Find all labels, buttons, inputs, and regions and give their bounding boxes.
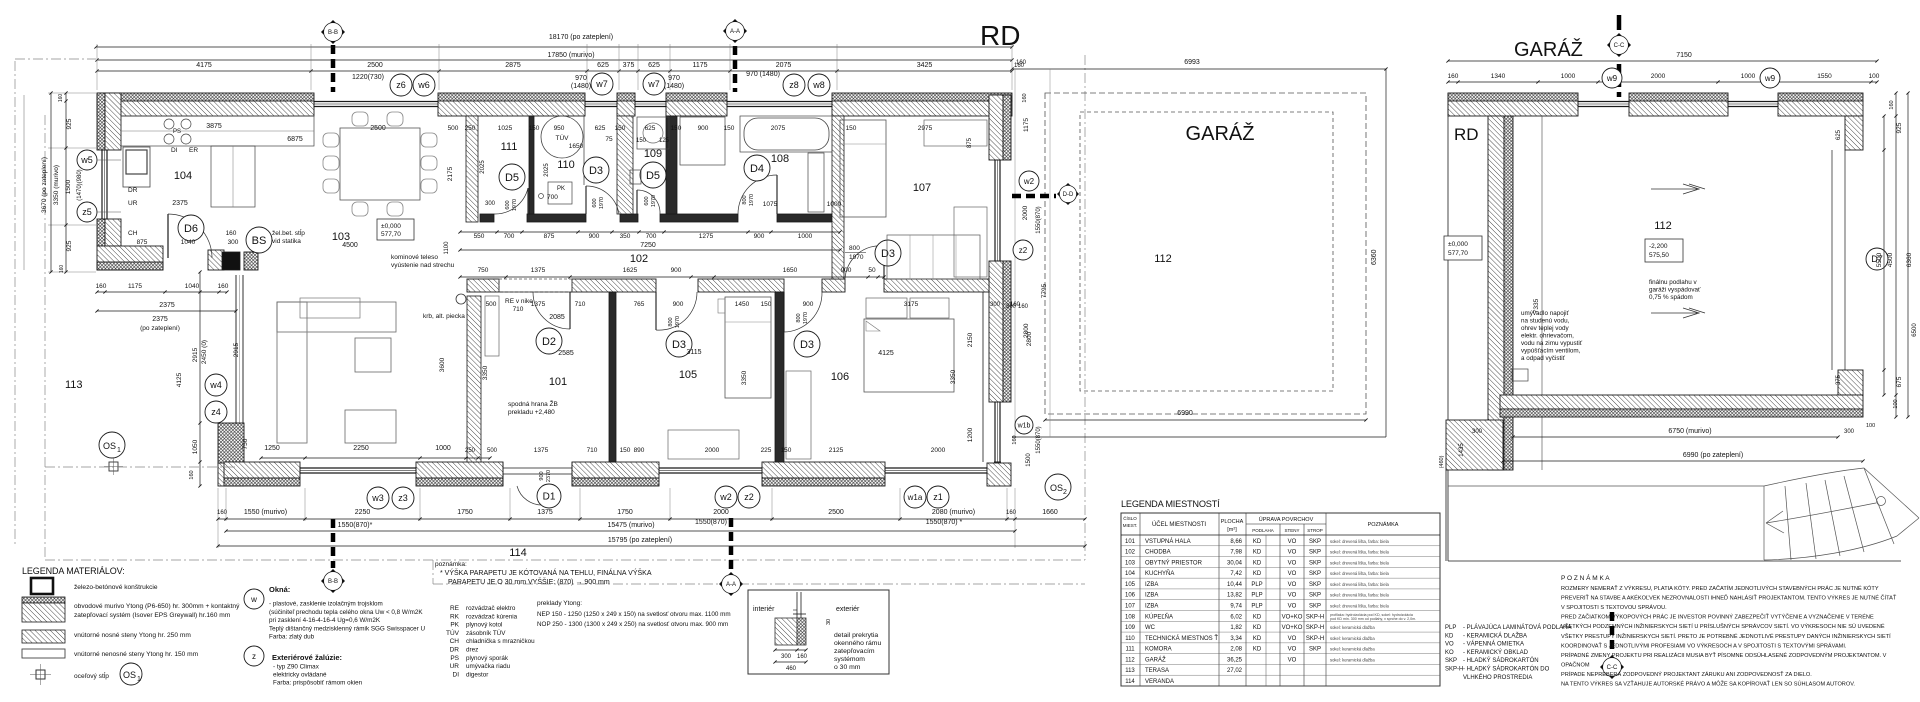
svg-text:700: 700 xyxy=(547,194,558,201)
svg-text:pod KD min. 300 mm od podlahy,: pod KD min. 300 mm od podlahy, v sprche … xyxy=(1330,617,1416,621)
svg-text:160: 160 xyxy=(1889,100,1895,109)
svg-text:1550(870): 1550(870) xyxy=(1036,426,1042,453)
svg-text:300: 300 xyxy=(1472,429,1483,435)
svg-text:3350: 3350 xyxy=(950,369,957,384)
svg-text:- KERAMICKÝ OBKLAD: - KERAMICKÝ OBKLAD xyxy=(1463,649,1529,656)
svg-text:P O Z N Á M K A: P O Z N Á M K A xyxy=(1561,573,1610,582)
svg-text:PK: PK xyxy=(557,186,565,192)
svg-text:VŠETKY PRESTUPY INŽINIERSKYCH: VŠETKY PRESTUPY INŽINIERSKYCH SIETÍ. PRE… xyxy=(1561,632,1891,640)
svg-text:KÚPEĽŇA: KÚPEĽŇA xyxy=(1145,613,1173,620)
svg-text:V SPOJITOSTI S TEXTOVOU SPRÁVO: V SPOJITOSTI S TEXTOVOU SPRÁVOU. xyxy=(1561,604,1667,611)
svg-text:112: 112 xyxy=(1654,220,1672,232)
svg-text:detail prekrytia: detail prekrytia xyxy=(834,632,878,639)
svg-text:SKP-H: SKP-H xyxy=(1306,614,1324,620)
svg-text:CH: CH xyxy=(450,638,460,645)
svg-text:250: 250 xyxy=(465,125,476,132)
svg-text:550: 550 xyxy=(474,233,485,240)
svg-text:6500: 6500 xyxy=(1912,323,1918,337)
svg-text:6750 (murivo): 6750 (murivo) xyxy=(1668,428,1711,435)
svg-text:225: 225 xyxy=(761,447,772,454)
svg-text:710: 710 xyxy=(587,447,598,454)
svg-text:1375: 1375 xyxy=(534,447,549,454)
svg-text:B-B: B-B xyxy=(328,579,338,585)
svg-text:250: 250 xyxy=(465,448,476,454)
svg-text:LEGENDA MIESTNOSTÍ: LEGENDA MIESTNOSTÍ xyxy=(1121,499,1220,509)
svg-text:1650: 1650 xyxy=(783,267,798,274)
svg-text:375: 375 xyxy=(623,62,635,69)
svg-text:plynový kotol: plynový kotol xyxy=(466,622,502,629)
svg-text:VO: VO xyxy=(1288,593,1297,599)
svg-text:800: 800 xyxy=(849,245,860,252)
svg-text:2500: 2500 xyxy=(828,509,844,516)
svg-text:a odpad vyčistiť: a odpad vyčistiť xyxy=(1521,355,1566,362)
svg-text:2370: 2370 xyxy=(546,470,552,482)
svg-text:1660: 1660 xyxy=(1042,509,1058,516)
svg-text:300: 300 xyxy=(228,239,239,246)
svg-text:900: 900 xyxy=(754,233,765,240)
svg-text:- plastové, zasklenie izolačný: - plastové, zasklenie izolačným trojsklo… xyxy=(269,601,383,608)
svg-text:z: z xyxy=(252,652,256,661)
svg-text:925: 925 xyxy=(66,118,73,129)
svg-text:710: 710 xyxy=(575,301,586,308)
svg-text:6993: 6993 xyxy=(1184,59,1200,66)
svg-text:2085: 2085 xyxy=(549,314,565,321)
svg-text:3175: 3175 xyxy=(904,301,919,308)
svg-text:100: 100 xyxy=(1893,399,1899,408)
svg-text:(460): (460) xyxy=(1439,455,1445,468)
svg-text:LEGENDA MATERIÁLOV:: LEGENDA MATERIÁLOV: xyxy=(22,566,125,576)
svg-text:oceľový stĺp: oceľový stĺp xyxy=(74,671,109,680)
svg-text:113: 113 xyxy=(1125,668,1135,674)
svg-text:7250: 7250 xyxy=(640,242,656,249)
svg-text:DR: DR xyxy=(128,187,138,194)
svg-text:Teplý dištančný medzisklenný r: Teplý dištančný medzisklenný rámik SGG S… xyxy=(269,625,426,632)
svg-text:VO: VO xyxy=(1288,636,1297,642)
svg-text:600: 600 xyxy=(644,196,650,205)
svg-text:108: 108 xyxy=(771,153,789,165)
svg-text:KUCHYŇA: KUCHYŇA xyxy=(1145,570,1174,577)
svg-text:sokel: keramická dlažba: sokel: keramická dlažba xyxy=(1330,625,1375,630)
svg-text:1050: 1050 xyxy=(192,439,199,454)
svg-text:675: 675 xyxy=(1896,376,1903,387)
svg-text:umývadlo napojiť: umývadlo napojiť xyxy=(1521,310,1570,317)
svg-text:STENY: STENY xyxy=(1284,528,1299,533)
svg-text:950: 950 xyxy=(554,125,565,132)
svg-text:(1470)(980): (1470)(980) xyxy=(77,169,83,200)
svg-text:1970: 1970 xyxy=(651,195,657,207)
svg-text:kominové teleso: kominové teleso xyxy=(391,254,438,261)
svg-text:VO: VO xyxy=(1288,571,1297,577)
svg-text:30: 30 xyxy=(826,619,832,625)
svg-text:750: 750 xyxy=(478,267,489,274)
svg-text:105: 105 xyxy=(679,369,697,381)
svg-text:2025: 2025 xyxy=(480,160,486,174)
svg-text:VO: VO xyxy=(1288,560,1297,566)
svg-text:chladnička s mrazničkou: chladnička s mrazničkou xyxy=(466,638,535,645)
svg-text:sokel: drevená lišta, farba: b: sokel: drevená lišta, farba: biela xyxy=(1330,571,1390,576)
svg-text:1: 1 xyxy=(137,676,141,683)
svg-text:w1a: w1a xyxy=(907,493,923,502)
svg-text:110: 110 xyxy=(557,159,575,171)
svg-text:112: 112 xyxy=(1154,253,1172,265)
svg-text:vnútorné nenosné steny Ytong h: vnútorné nenosné steny Ytong hr. 150 mm xyxy=(74,651,199,658)
svg-text:7795: 7795 xyxy=(1041,283,1048,298)
svg-text:zásobník TÚV: zásobník TÚV xyxy=(466,628,506,637)
svg-text:pri zasklení 4-16-4-16-4 Ug=0,: pri zasklení 4-16-4-16-4 Ug=0,6 W/m2K xyxy=(269,617,381,624)
svg-text:1435: 1435 xyxy=(1459,443,1465,457)
svg-text:1000: 1000 xyxy=(1561,73,1576,80)
svg-text:1175: 1175 xyxy=(692,62,707,69)
svg-text:114: 114 xyxy=(1125,679,1135,685)
svg-text:6875: 6875 xyxy=(287,136,303,143)
svg-text:VO: VO xyxy=(1288,604,1297,610)
svg-text:2500: 2500 xyxy=(367,62,383,69)
svg-text:900: 900 xyxy=(673,301,684,308)
svg-text:160: 160 xyxy=(59,265,65,274)
svg-text:3350: 3350 xyxy=(482,365,489,380)
svg-text:sokel: drevená lišta, farba: b: sokel: drevená lišta, farba: biela xyxy=(1330,604,1390,609)
svg-text:SKP: SKP xyxy=(1309,539,1321,545)
svg-text:110: 110 xyxy=(1125,636,1135,642)
svg-text:PLP: PLP xyxy=(1445,625,1456,631)
svg-text:zatepľovacím: zatepľovacím xyxy=(834,648,875,655)
svg-text:2000: 2000 xyxy=(705,447,720,454)
svg-text:1970: 1970 xyxy=(749,194,755,206)
svg-text:ÚČEL MIESTNOSTI: ÚČEL MIESTNOSTI xyxy=(1152,521,1206,528)
svg-text:D3: D3 xyxy=(881,248,895,260)
svg-text:D5: D5 xyxy=(646,170,660,182)
svg-text:2375: 2375 xyxy=(152,316,168,323)
svg-text:600: 600 xyxy=(592,198,598,207)
svg-text:z8: z8 xyxy=(789,80,799,90)
svg-text:1100: 1100 xyxy=(444,241,450,255)
svg-text:625: 625 xyxy=(645,125,656,132)
svg-text:OS: OS xyxy=(1050,483,1063,493)
svg-text:C-C: C-C xyxy=(1614,43,1625,49)
svg-text:železo-betónové konštrukcie: železo-betónové konštrukcie xyxy=(74,584,158,591)
svg-text:460: 460 xyxy=(786,666,797,672)
svg-text:1500: 1500 xyxy=(1026,453,1032,467)
svg-text:2800: 2800 xyxy=(1026,331,1033,346)
svg-text:875: 875 xyxy=(137,239,148,246)
svg-text:sokel: drevená lišta, farba: b: sokel: drevená lišta, farba: biela xyxy=(1330,560,1390,565)
svg-text:B-B: B-B xyxy=(328,30,338,36)
svg-text:970: 970 xyxy=(575,75,587,82)
svg-text:C-C: C-C xyxy=(1607,665,1618,671)
svg-text:1340: 1340 xyxy=(1491,73,1506,80)
svg-text:101: 101 xyxy=(549,376,567,388)
svg-text:VO: VO xyxy=(1288,539,1297,545)
svg-text:elektr. ohrievačom,: elektr. ohrievačom, xyxy=(1521,333,1574,340)
svg-text:1750: 1750 xyxy=(457,509,473,516)
svg-text:krb, alt. piecka: krb, alt. piecka xyxy=(423,313,465,320)
svg-text:2000: 2000 xyxy=(713,509,729,516)
svg-text:1550(870): 1550(870) xyxy=(1036,206,1042,233)
svg-text:PRED ZAČIATKOM VÝKOPOVÝCH PRÁC: PRED ZAČIATKOM VÝKOPOVÝCH PRÁC JE INVEST… xyxy=(1561,613,1874,621)
svg-text:±0,000: ±0,000 xyxy=(1448,241,1468,248)
svg-text:150: 150 xyxy=(846,125,857,132)
svg-text:2915: 2915 xyxy=(233,342,240,357)
svg-text:105: 105 xyxy=(1125,582,1136,588)
svg-text:6360: 6360 xyxy=(1371,249,1378,265)
svg-text:27,02: 27,02 xyxy=(1227,668,1243,674)
svg-text:600: 600 xyxy=(505,200,511,209)
svg-text:625: 625 xyxy=(1836,129,1842,140)
svg-text:w5: w5 xyxy=(80,155,93,165)
svg-text:160: 160 xyxy=(797,654,808,660)
svg-text:577,70: 577,70 xyxy=(1448,250,1468,257)
svg-text:1025: 1025 xyxy=(498,125,513,132)
svg-text:8,66: 8,66 xyxy=(1230,539,1242,545)
svg-text:VO: VO xyxy=(1288,647,1297,653)
svg-text:106: 106 xyxy=(1125,593,1136,599)
svg-text:TÚV: TÚV xyxy=(446,628,460,637)
svg-text:160: 160 xyxy=(96,283,107,290)
svg-text:800: 800 xyxy=(742,195,748,204)
svg-text:150: 150 xyxy=(529,125,540,132)
svg-text:D3: D3 xyxy=(589,165,603,177)
svg-text:PREVERIŤ NA STAVBE A AKÉKOĽVEK: PREVERIŤ NA STAVBE A AKÉKOĽVEK NEZROVNAL… xyxy=(1561,594,1897,602)
svg-text:160: 160 xyxy=(226,230,237,237)
svg-text:500: 500 xyxy=(486,301,497,308)
svg-text:exteriér: exteriér xyxy=(836,606,860,613)
svg-text:-2,200: -2,200 xyxy=(1649,243,1668,250)
svg-text:1040: 1040 xyxy=(181,239,196,246)
svg-text:w3: w3 xyxy=(371,493,384,503)
svg-text:17850 (murivo): 17850 (murivo) xyxy=(547,52,594,59)
svg-text:800: 800 xyxy=(668,317,674,326)
svg-text:ER: ER xyxy=(189,147,198,154)
svg-text:1220(730): 1220(730) xyxy=(352,74,384,81)
svg-text:1175: 1175 xyxy=(128,283,142,290)
svg-text:300: 300 xyxy=(990,302,1001,308)
svg-text:577,70: 577,70 xyxy=(381,231,401,238)
svg-text:VO: VO xyxy=(1445,642,1454,648)
svg-text:4175: 4175 xyxy=(196,62,212,69)
svg-text:(1480): (1480) xyxy=(571,83,591,90)
svg-text:575,50: 575,50 xyxy=(1649,252,1669,259)
svg-text:150: 150 xyxy=(636,138,647,144)
svg-text:KO: KO xyxy=(1445,650,1454,656)
svg-text:z1: z1 xyxy=(933,492,943,502)
svg-text:STROP: STROP xyxy=(1307,528,1323,533)
svg-text:w1b: w1b xyxy=(1017,423,1031,430)
svg-text:MIEST.: MIEST. xyxy=(1123,523,1138,528)
svg-text:2150: 2150 xyxy=(967,332,974,347)
svg-text:plynový sporák: plynový sporák xyxy=(466,655,509,662)
svg-text:6990: 6990 xyxy=(1177,410,1193,417)
svg-text:finálnu podlahu v: finálnu podlahu v xyxy=(1649,279,1697,286)
svg-text:625: 625 xyxy=(597,62,609,69)
svg-text:sokel: keramická dlažba: sokel: keramická dlažba xyxy=(1330,647,1375,652)
svg-text:SKP: SKP xyxy=(1309,604,1321,610)
svg-text:6,02: 6,02 xyxy=(1230,614,1242,620)
svg-text:w9: w9 xyxy=(1764,74,1776,83)
svg-text:z3: z3 xyxy=(398,493,408,503)
svg-text:IZBA: IZBA xyxy=(1145,604,1158,610)
svg-text:4125: 4125 xyxy=(176,372,183,387)
svg-text:1200: 1200 xyxy=(967,427,974,442)
svg-text:vid statika: vid statika xyxy=(272,238,301,245)
svg-text:10,44: 10,44 xyxy=(1227,582,1243,588)
svg-text:KD: KD xyxy=(1253,560,1262,566)
svg-text:3600: 3600 xyxy=(439,357,446,372)
svg-text:3425: 3425 xyxy=(917,62,933,69)
svg-text:D2: D2 xyxy=(542,336,556,348)
svg-text:vnútorné nosné steny Ytong hr.: vnútorné nosné steny Ytong hr. 250 mm xyxy=(74,632,191,639)
svg-text:D3: D3 xyxy=(800,339,814,351)
svg-text:107: 107 xyxy=(1125,604,1136,610)
svg-text:TECHNICKÁ MIESTNOS Ť: TECHNICKÁ MIESTNOS Ť xyxy=(1145,634,1218,642)
svg-text:- typ Z90 Climax: - typ Z90 Climax xyxy=(273,664,320,671)
svg-text:2975: 2975 xyxy=(918,125,933,132)
svg-text:1550(870)*: 1550(870)* xyxy=(338,522,373,529)
svg-text:300: 300 xyxy=(485,201,496,207)
svg-text:- HLADKÝ SÁDROKARTÓN: - HLADKÝ SÁDROKARTÓN xyxy=(1463,657,1539,664)
svg-text:1970: 1970 xyxy=(599,197,605,209)
svg-text:vyústenie nad strechu: vyústenie nad strechu xyxy=(391,262,455,269)
svg-text:OS: OS xyxy=(123,670,136,680)
svg-text:D1: D1 xyxy=(543,492,556,503)
svg-text:VO+KO: VO+KO xyxy=(1282,614,1303,620)
svg-text:KD: KD xyxy=(1253,571,1262,577)
svg-text:obvodové murivo Ytong (P6-650): obvodové murivo Ytong (P6-650) hr. 300mm… xyxy=(74,603,240,610)
svg-text:w4: w4 xyxy=(209,380,222,390)
svg-text:KD: KD xyxy=(1253,614,1262,620)
svg-text:2175: 2175 xyxy=(447,166,454,181)
svg-text:5500: 5500 xyxy=(1876,252,1883,267)
svg-text:rozvádzač elektro: rozvádzač elektro xyxy=(466,605,516,612)
svg-text:SKP-H: SKP-H xyxy=(1306,625,1324,631)
svg-text:2,08: 2,08 xyxy=(1230,647,1242,653)
svg-text:GARÁŽ: GARÁŽ xyxy=(1514,38,1583,61)
svg-text:50: 50 xyxy=(868,267,876,274)
svg-text:104: 104 xyxy=(1125,571,1136,577)
svg-text:875: 875 xyxy=(967,137,973,148)
svg-text:CHODBA: CHODBA xyxy=(1145,550,1171,556)
svg-text:drez: drez xyxy=(466,647,478,654)
svg-text:890: 890 xyxy=(634,447,645,454)
svg-text:VO: VO xyxy=(1288,550,1297,556)
svg-text:925: 925 xyxy=(1896,122,1903,133)
svg-text:2375: 2375 xyxy=(172,200,188,207)
svg-text:0,75 % spádom: 0,75 % spádom xyxy=(1649,294,1693,301)
svg-text:15475 (murivo): 15475 (murivo) xyxy=(607,522,654,529)
svg-text:KD: KD xyxy=(1445,633,1454,639)
svg-text:900: 900 xyxy=(589,233,600,240)
svg-text:PODLAHA: PODLAHA xyxy=(1252,528,1274,533)
svg-text:D4: D4 xyxy=(750,163,764,175)
svg-text:NEP 150 - 1250 (1250 x 249 x 1: NEP 150 - 1250 (1250 x 249 x 150) na sve… xyxy=(537,611,731,618)
svg-text:* VÝŠKA PARAPETU JE KÓTOVANÁ: * VÝŠKA PARAPETU JE KÓTOVANÁ NA TEHLU, F… xyxy=(440,568,652,577)
svg-text:1550(870) *: 1550(870) * xyxy=(926,519,963,526)
svg-text:1375: 1375 xyxy=(537,509,553,516)
svg-text:2500: 2500 xyxy=(370,125,386,132)
svg-text:1000: 1000 xyxy=(798,233,813,240)
svg-text:900: 900 xyxy=(671,267,682,274)
svg-text:PS: PS xyxy=(450,655,459,662)
svg-text:CH: CH xyxy=(128,230,138,237)
svg-text:100: 100 xyxy=(1869,73,1880,80)
svg-text:30,04: 30,04 xyxy=(1227,560,1243,566)
svg-text:- HLADKÝ SÁDROKARTÓN DO: - HLADKÝ SÁDROKARTÓN DO xyxy=(1463,666,1550,673)
svg-text:KD: KD xyxy=(1253,636,1262,642)
svg-text:4500: 4500 xyxy=(1887,252,1894,267)
svg-text:160: 160 xyxy=(1448,73,1459,80)
svg-text:VLHKÉHO PROSTREDIA: VLHKÉHO PROSTREDIA xyxy=(1463,674,1532,681)
svg-text:150: 150 xyxy=(615,125,626,132)
svg-text:1,82: 1,82 xyxy=(1230,625,1242,631)
svg-text:PLP: PLP xyxy=(1251,582,1262,588)
svg-text:104: 104 xyxy=(174,170,192,182)
svg-text:SKP: SKP xyxy=(1309,560,1321,566)
svg-text:PRÍPADE NEPREBERÁ ZODPOVEDNÝ P: PRÍPADE NEPREBERÁ ZODPOVEDNÝ PROJEKTANT … xyxy=(1561,670,1812,678)
svg-text:Exteriérové žalúzie:: Exteriérové žalúzie: xyxy=(272,653,342,662)
svg-text:500: 500 xyxy=(448,125,459,132)
svg-text:digestor: digestor xyxy=(466,671,488,678)
svg-text:SKP: SKP xyxy=(1309,571,1321,577)
svg-text:625: 625 xyxy=(595,125,606,132)
svg-text:ČÍSLO: ČÍSLO xyxy=(1123,515,1137,521)
svg-text:SKP: SKP xyxy=(1309,647,1321,653)
svg-text:DI: DI xyxy=(171,147,178,154)
svg-text:7,42: 7,42 xyxy=(1230,571,1242,577)
svg-text:z2: z2 xyxy=(744,492,754,502)
svg-text:160: 160 xyxy=(189,470,195,479)
svg-text:3,34: 3,34 xyxy=(1230,636,1242,642)
svg-text:PLP: PLP xyxy=(1251,593,1262,599)
svg-text:PRÍPADNÉ ZMENY PROJEKTU PRI RE: PRÍPADNÉ ZMENY PROJEKTU PRI REALIZÁCII M… xyxy=(1561,651,1887,659)
svg-text:IZBA: IZBA xyxy=(1145,593,1158,599)
svg-text:A-A: A-A xyxy=(730,29,740,35)
svg-text:PLP: PLP xyxy=(1251,604,1262,610)
svg-text:1500: 1500 xyxy=(65,179,72,194)
svg-text:1550(870): 1550(870) xyxy=(695,519,727,526)
svg-text:KD: KD xyxy=(1253,550,1262,556)
svg-text:1175: 1175 xyxy=(1023,118,1030,132)
svg-text:150: 150 xyxy=(620,447,631,454)
svg-text:150: 150 xyxy=(671,125,682,132)
svg-text:710: 710 xyxy=(513,306,524,313)
svg-text:2: 2 xyxy=(1063,489,1067,496)
svg-text:1000: 1000 xyxy=(827,201,842,208)
svg-text:3875: 3875 xyxy=(206,123,222,130)
svg-text:TERASA: TERASA xyxy=(1145,668,1169,674)
svg-text:2450 (0): 2450 (0) xyxy=(201,340,208,364)
svg-text:1970: 1970 xyxy=(512,199,518,211)
svg-text:160: 160 xyxy=(217,510,228,516)
svg-text:2075: 2075 xyxy=(771,125,786,132)
svg-text:160: 160 xyxy=(1014,63,1025,69)
svg-text:SKP-H: SKP-H xyxy=(1306,636,1324,642)
svg-text:2250: 2250 xyxy=(353,445,369,452)
svg-text:6990 (po zateplení): 6990 (po zateplení) xyxy=(1683,452,1743,459)
svg-text:w6: w6 xyxy=(417,80,430,90)
svg-text:36,25: 36,25 xyxy=(1227,657,1243,663)
svg-text:700: 700 xyxy=(646,233,657,240)
svg-text:sokel: drevená lišta, farba: b: sokel: drevená lišta, farba: biela xyxy=(1330,593,1390,598)
svg-text:SKP: SKP xyxy=(1309,582,1321,588)
svg-text:[m²]: [m²] xyxy=(1227,527,1237,533)
svg-text:KD: KD xyxy=(1253,647,1262,653)
svg-text:IZBA: IZBA xyxy=(1145,582,1158,588)
svg-text:z4: z4 xyxy=(211,407,221,417)
svg-text:102: 102 xyxy=(630,253,648,265)
svg-text:625: 625 xyxy=(648,62,660,69)
svg-text:z5: z5 xyxy=(82,207,92,217)
svg-text:rozvádzač kúrenia: rozvádzač kúrenia xyxy=(466,613,518,620)
svg-text:900: 900 xyxy=(803,301,814,308)
